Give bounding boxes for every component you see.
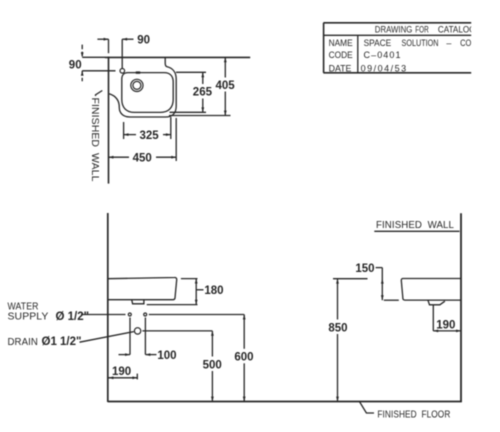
svg-text:850: 850 — [328, 322, 347, 334]
dim 265: top extension line — [176, 71, 206, 73]
svg-text:325: 325 — [140, 130, 160, 142]
svg-text:405: 405 — [216, 80, 236, 92]
drain circle — [134, 328, 140, 334]
dim 265: bottom extension line — [170, 111, 207, 113]
water supply right point — [144, 313, 147, 316]
svg-text:NAME: NAME — [329, 38, 353, 48]
title block name value SPACE SOLUTION - CORNER — [364, 38, 493, 48]
drain leader diagonal — [80, 332, 134, 343]
svg-text:DRAIN: DRAIN — [8, 337, 39, 348]
dim 150: vertical line — [381, 268, 383, 301]
dim 850: vertical upper part — [337, 279, 339, 320]
dim 90 left: lower segment with arrow — [81, 71, 83, 81]
dim 265: vertical line upper part — [202, 72, 204, 84]
svg-text:SUPPLY: SUPPLY — [8, 311, 49, 322]
svg-text:90: 90 — [69, 59, 82, 71]
front view wall line — [107, 213, 109, 402]
right supply drop line — [144, 318, 146, 355]
front basin drain tab — [132, 300, 144, 304]
dim 405: bottom extension line — [169, 115, 231, 117]
dim 180: stub to text — [196, 289, 203, 291]
dim 90 left: bottom extension line — [82, 70, 115, 72]
svg-text:SPACE: SPACE — [364, 38, 392, 48]
dim 90 top: faucet extension line — [121, 39, 123, 68]
svg-text:FINISHED WALL: FINISHED WALL — [89, 98, 100, 182]
svg-text:190: 190 — [436, 319, 455, 331]
side view finished wall underline — [374, 230, 459, 232]
side basin drain tab — [428, 300, 445, 305]
floor line — [108, 401, 462, 403]
svg-text:09/04/53: 09/04/53 — [361, 63, 408, 73]
side drain pipe line — [432, 305, 434, 331]
dim 325: left part of line — [124, 134, 136, 136]
water supply leader — [81, 314, 126, 316]
svg-text:CATALOG: CATALOG — [438, 24, 476, 34]
svg-text:Ø 1/2": Ø 1/2" — [56, 311, 90, 323]
svg-text:FOR: FOR — [415, 24, 429, 34]
dim 850: vertical lower part — [337, 334, 339, 402]
dim 500: vertical upper part — [211, 331, 213, 357]
title block left border — [323, 23, 325, 73]
drain level extension line to 500 — [142, 330, 212, 332]
title block header underline — [323, 34, 471, 36]
svg-text:CORNER: CORNER — [460, 38, 493, 48]
dim 405: vertical line lower part — [224, 92, 226, 116]
dim 265: vertical line lower part — [202, 99, 204, 113]
dim 450: right extension line — [175, 118, 177, 161]
dim 180: bottom extension line — [147, 304, 198, 306]
plan view wall top line — [105, 56, 250, 58]
svg-text:180: 180 — [204, 285, 223, 297]
svg-text:150: 150 — [355, 263, 374, 275]
svg-text:Ø1 1/2": Ø1 1/2" — [42, 336, 82, 348]
plan faucet hole — [120, 69, 125, 74]
svg-text:600: 600 — [234, 352, 253, 364]
plan view wall left line — [108, 57, 110, 184]
svg-text:100: 100 — [157, 350, 176, 362]
dim 325: right extension tick — [170, 117, 172, 139]
dim 90 left: upper segment with arrow — [81, 45, 83, 58]
svg-text:FINISHED WALL: FINISHED WALL — [376, 220, 454, 231]
side basin outline — [401, 279, 461, 301]
svg-text:C–0401: C–0401 — [364, 50, 402, 60]
dim 190 side: line — [433, 330, 461, 332]
svg-text:SOLUTION: SOLUTION — [402, 38, 439, 48]
svg-text:FINISHED FLOOR: FINISHED FLOOR — [377, 410, 450, 421]
finished floor leader — [359, 402, 374, 414]
dim 90 top: right segment with arrow — [122, 38, 133, 40]
dim 325: right part of line — [163, 134, 171, 136]
svg-text:190: 190 — [112, 366, 131, 378]
basin top extension line to 850 — [333, 278, 368, 280]
dim 190 front: right extension tick — [136, 374, 138, 380]
dim 405: vertical line upper part — [224, 57, 226, 77]
plan basin bowl inner outline — [122, 73, 173, 113]
dim 100: right outside segment with arrow — [145, 354, 156, 356]
svg-text:DATE: DATE — [329, 63, 352, 73]
plan tap hole inner circle — [133, 81, 141, 89]
svg-text:DRAWING: DRAWING — [375, 24, 413, 34]
dim 100: left outside segment with arrow — [119, 354, 131, 356]
plan tap hole outer circle — [131, 79, 143, 91]
dim 150: stub from text — [376, 267, 383, 269]
plan bowl overflow tick — [136, 71, 140, 73]
front basin outline — [108, 277, 177, 299]
svg-text:CODE: CODE — [329, 50, 353, 60]
title block outer top line — [323, 22, 471, 24]
title block column divider — [357, 35, 359, 73]
finished wall leader (plan) — [96, 91, 103, 97]
dim 450: right part of line — [156, 156, 176, 158]
plan basin outer outline — [109, 58, 176, 117]
svg-text:–: – — [446, 38, 451, 48]
svg-text:265: 265 — [193, 86, 213, 98]
left supply drop line — [129, 318, 131, 355]
svg-text:450: 450 — [133, 153, 152, 165]
dim 180: vertical line — [195, 279, 197, 305]
water supply left point — [128, 313, 131, 316]
dim 150: bottom extension line — [384, 299, 399, 301]
svg-text:90: 90 — [137, 35, 150, 47]
dim 600: vertical upper part — [243, 315, 245, 349]
dim 190 front: line — [109, 377, 138, 379]
title block bottom border — [323, 72, 471, 74]
side view wall line — [460, 213, 462, 402]
dim 180: top extension line — [181, 278, 198, 280]
dim 325: left extension tick — [123, 122, 125, 139]
dim 90 top: wall extension line — [108, 39, 110, 53]
dim 90 top: left segment with arrow — [97, 38, 108, 40]
dim 450: left part of line — [109, 156, 130, 158]
title block header text DRAWING FOR CATALOG — [375, 24, 476, 34]
dim 90 left: top extension line — [82, 56, 105, 58]
dim 600: vertical lower part — [243, 363, 245, 401]
supply level extension line to 600 — [149, 314, 244, 316]
svg-text:500: 500 — [203, 359, 222, 371]
dim 500: vertical lower part — [211, 371, 213, 402]
